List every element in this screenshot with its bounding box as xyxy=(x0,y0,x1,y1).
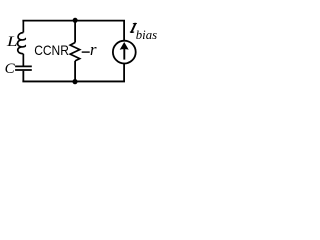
resistor -r (CCNR zigzag) xyxy=(70,43,80,61)
svg-text:C: C xyxy=(5,61,16,77)
svg-text:L: L xyxy=(6,33,18,49)
capacitor C (plates) xyxy=(15,66,32,70)
wire middle branch lower segment xyxy=(74,61,76,82)
wire right branch lower segment xyxy=(123,63,125,82)
inductor L (coil) xyxy=(18,33,26,54)
current source U1 (circle with up arrow) xyxy=(113,41,136,64)
wire right branch upper segment xyxy=(123,21,125,41)
wire middle branch upper segment xyxy=(74,21,76,43)
wire left branch lower segment xyxy=(22,71,24,82)
node bottom junction xyxy=(72,79,77,84)
value label -r xyxy=(82,40,97,59)
svg-text:r: r xyxy=(90,40,97,59)
wire top (node A rail) xyxy=(23,20,124,23)
label Ibias xyxy=(130,23,157,42)
svg-text:CCNR: CCNR xyxy=(34,43,69,58)
wire bottom (node B rail) xyxy=(23,80,124,83)
node top junction xyxy=(73,18,78,23)
wire left branch upper segment xyxy=(22,21,24,33)
wire between inductor and capacitor xyxy=(22,54,24,66)
svg-text:bias: bias xyxy=(136,28,157,42)
